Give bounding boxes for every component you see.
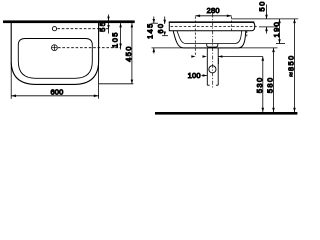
bowl inner [177, 31, 242, 44]
dim 50 [266, 5, 268, 19]
svg-text:600: 600 [50, 87, 63, 96]
svg-text:280: 280 [207, 6, 220, 15]
dim 580 [273, 48, 275, 112]
svg-text:450: 450 [124, 45, 133, 62]
dim 280 [195, 15, 231, 17]
svg-text:190: 190 [272, 21, 281, 38]
svg-text:105: 105 [111, 31, 120, 48]
bowl outer [173, 31, 246, 48]
svg-text:60: 60 [156, 23, 165, 34]
dim 450 [131, 23, 133, 84]
dim 600 [10, 62, 12, 99]
dim 190 [279, 19, 281, 44]
overflow hidden dash [246, 31, 248, 37]
overflow/drain circle with crosshair [52, 45, 58, 51]
dim 105 [120, 23, 122, 49]
band dashed line [171, 25, 259, 27]
svg-text:580: 580 [265, 76, 274, 93]
svg-text:530: 530 [255, 76, 264, 93]
datum line top right [232, 18, 299, 20]
tap hole dashed line [57, 28, 108, 30]
basin outer outline [11, 23, 98, 84]
dim 530 [262, 57, 264, 113]
svg-text:100: 100 [188, 71, 201, 80]
svg-text:50: 50 [257, 0, 266, 11]
svg-text:145: 145 [146, 22, 155, 39]
dim 100 [191, 55, 195, 58]
dim 145 [153, 17, 155, 24]
dim 60 [164, 17, 166, 25]
overflow dashed line [58, 47, 121, 49]
outlet circle [209, 66, 216, 73]
drain recess [207, 44, 218, 48]
front view rim band outline [169, 22, 255, 31]
ovf ext line right [259, 26, 278, 28]
280 ext dashed [194, 17, 196, 57]
ext 580 [152, 47, 278, 49]
dim 850 [294, 19, 296, 112]
basin inner bowl [18, 39, 92, 79]
svg-text:55: 55 [98, 21, 107, 32]
svg-text:≈850: ≈850 [286, 54, 295, 76]
floor [155, 112, 297, 115]
wall [3, 20, 135, 23]
tap hole circle [52, 27, 56, 31]
centerline [212, 14, 214, 89]
drain pipe [206, 48, 208, 85]
dim 55 [108, 15, 110, 34]
